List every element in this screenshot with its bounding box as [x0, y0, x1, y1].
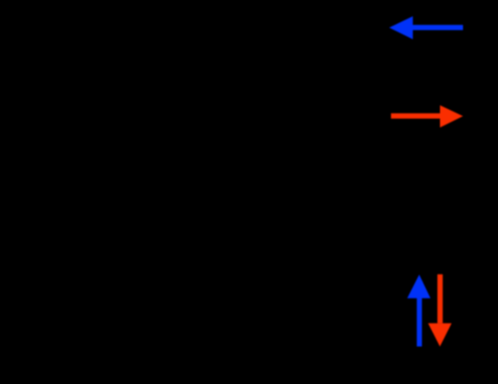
wire top (loop top conductor): [80, 49, 430, 52]
svg-text:+: +: [92, 155, 101, 172]
svg-text:−: −: [92, 212, 101, 229]
svg-text:I: I: [448, 252, 452, 269]
svg-text:electron flow: electron flow: [270, 17, 372, 37]
wire bottom (loop bottom conductor): [80, 329, 430, 332]
arrow: conventional current down (red, points down): [428, 274, 452, 346]
arrow: electron flow up (blue, points up): [407, 275, 430, 347]
wire left (loop left conductor): [79, 50, 82, 330]
arrow: electron flow (blue, points left): [389, 16, 463, 39]
svg-text:conventional current: conventional current: [250, 106, 412, 126]
wire right (loop right conductor): [429, 50, 432, 330]
battery B1: [58, 155, 102, 229]
resistor R1: [422, 150, 438, 224]
arrow: conventional current (red, points right): [391, 105, 463, 127]
svg-text:e−: e−: [398, 252, 416, 269]
